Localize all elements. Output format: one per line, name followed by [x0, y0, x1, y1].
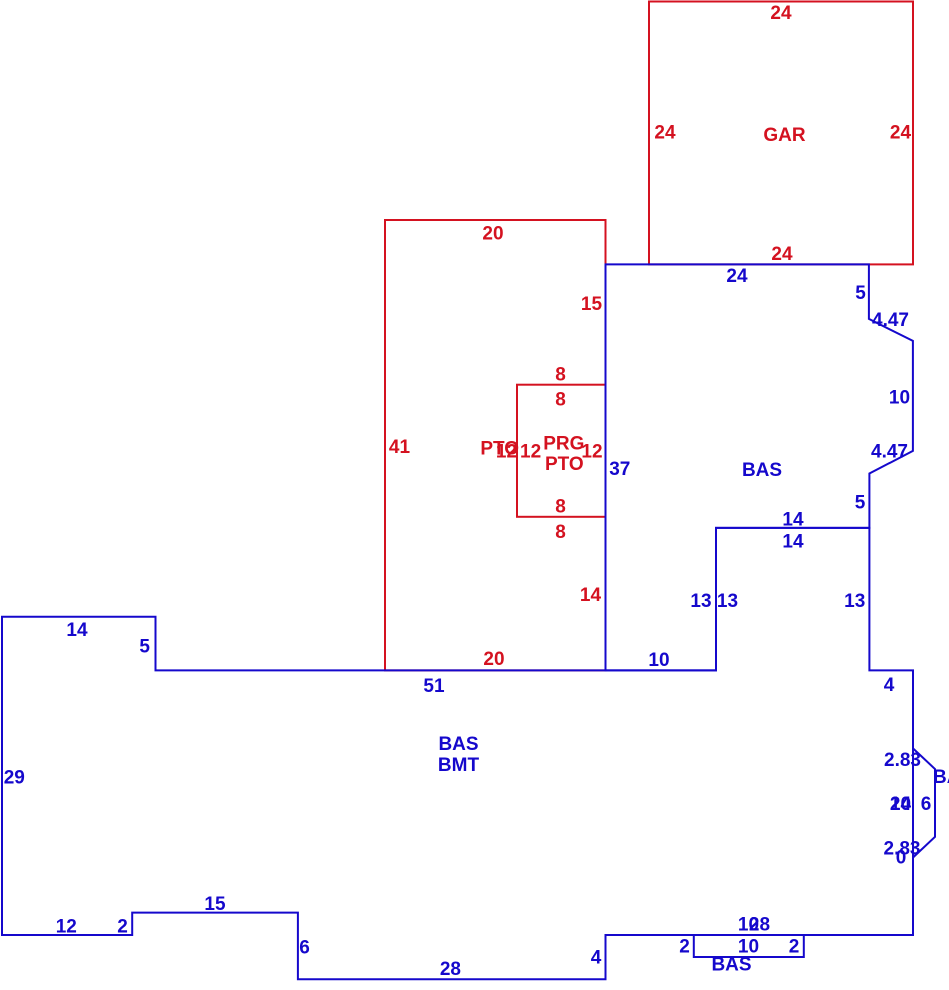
svg-text:0: 0: [896, 848, 907, 869]
svg-text:13: 13: [690, 591, 711, 612]
svg-text:14: 14: [66, 620, 88, 641]
svg-text:51: 51: [423, 676, 445, 697]
svg-text:10: 10: [889, 388, 910, 409]
svg-text:2: 2: [679, 937, 690, 958]
svg-text:37: 37: [609, 459, 630, 480]
right side bump-out BAL polygon: [913, 748, 935, 857]
svg-text:5: 5: [139, 637, 150, 658]
svg-text:8: 8: [555, 522, 566, 543]
svg-text:29: 29: [4, 768, 25, 789]
basement outline BAS/BMT (large bottom blue polygon): [2, 528, 913, 979]
svg-text:BAS: BAS: [711, 955, 751, 976]
svg-text:15: 15: [581, 294, 603, 315]
porch outline PRG/PTO (small red rectangle): [517, 385, 606, 517]
svg-text:14: 14: [782, 510, 804, 531]
svg-text:4.47: 4.47: [871, 442, 908, 463]
svg-text:GAR: GAR: [763, 125, 806, 146]
svg-text:14: 14: [782, 532, 804, 553]
svg-text:2.83: 2.83: [884, 750, 921, 771]
svg-text:8: 8: [555, 497, 566, 518]
small bottom BAS rectangle: [694, 935, 804, 957]
svg-text:12: 12: [581, 442, 602, 463]
svg-text:2: 2: [789, 937, 800, 958]
svg-text:4.47: 4.47: [872, 310, 909, 331]
svg-text:5: 5: [855, 492, 866, 513]
svg-text:12: 12: [496, 442, 517, 463]
svg-text:24: 24: [771, 244, 793, 265]
svg-text:PTO: PTO: [545, 454, 584, 475]
svg-text:10: 10: [738, 915, 759, 936]
svg-text:4: 4: [884, 675, 895, 696]
svg-text:12: 12: [56, 917, 77, 938]
svg-text:24: 24: [770, 3, 792, 24]
svg-text:5: 5: [855, 283, 866, 304]
svg-text:13: 13: [844, 591, 865, 612]
svg-text:14: 14: [580, 585, 602, 606]
svg-text:2: 2: [117, 917, 128, 938]
svg-text:10: 10: [648, 650, 669, 671]
svg-text:6: 6: [299, 938, 310, 959]
svg-text:24: 24: [726, 266, 748, 287]
svg-text:20: 20: [483, 649, 504, 670]
basement outline BAS (middle blue polygon): [606, 264, 913, 670]
svg-text:12: 12: [520, 442, 541, 463]
svg-text:8: 8: [555, 390, 566, 411]
svg-text:4: 4: [591, 948, 602, 969]
svg-text:6: 6: [921, 794, 932, 815]
svg-text:28: 28: [440, 959, 461, 980]
svg-text:BAS: BAS: [742, 460, 782, 481]
svg-text:13: 13: [717, 591, 738, 612]
svg-text:PRG: PRG: [543, 434, 584, 455]
svg-text:15: 15: [204, 894, 226, 915]
svg-text:8: 8: [555, 365, 566, 386]
svg-text:10: 10: [890, 794, 911, 815]
svg-text:41: 41: [389, 437, 411, 458]
svg-text:20: 20: [482, 224, 503, 245]
svg-text:BMT: BMT: [438, 755, 480, 776]
patio outline PTO (large red rectangle): [385, 220, 606, 670]
svg-text:24: 24: [654, 123, 676, 144]
garage outline GAR: [649, 2, 913, 265]
svg-text:BAL: BAL: [933, 767, 949, 788]
svg-text:BAS: BAS: [438, 734, 478, 755]
svg-text:24: 24: [890, 123, 912, 144]
